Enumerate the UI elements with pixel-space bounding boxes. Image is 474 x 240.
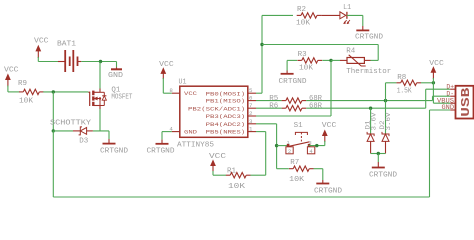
svg-text:3: 3: [249, 118, 253, 125]
svg-text:1: 1: [287, 140, 290, 146]
svg-text:68R: 68R: [309, 102, 323, 110]
svg-text:VCC: VCC: [184, 90, 198, 97]
svg-text:CRTGND: CRTGND: [314, 188, 342, 196]
svg-text:VCC: VCC: [34, 38, 49, 46]
svg-text:L1: L1: [343, 4, 351, 12]
svg-text:VCC: VCC: [4, 67, 19, 75]
svg-text:10K: 10K: [296, 19, 311, 27]
svg-text:CRTGND: CRTGND: [369, 172, 397, 180]
svg-text:PB3(ADC3): PB3(ADC3): [206, 113, 246, 120]
svg-text:CRTGND: CRTGND: [355, 33, 383, 41]
svg-text:CRTGND: CRTGND: [100, 147, 128, 155]
svg-text:D3: D3: [79, 138, 88, 146]
svg-text:R2: R2: [297, 6, 306, 14]
svg-text:7: 7: [249, 102, 253, 109]
svg-text:3.6V: 3.6V: [385, 112, 392, 130]
svg-text:CRTGND: CRTGND: [147, 147, 175, 155]
svg-text:PB0(MOSI): PB0(MOSI): [206, 90, 246, 97]
svg-text:PB4(ADC2): PB4(ADC2): [206, 121, 246, 128]
svg-text:VCC: VCC: [322, 122, 337, 130]
svg-text:1: 1: [249, 126, 253, 133]
svg-text:PB1(MISO): PB1(MISO): [206, 98, 246, 105]
svg-text:GND: GND: [184, 129, 198, 136]
svg-text:R6: R6: [269, 102, 278, 110]
svg-text:GND: GND: [108, 72, 123, 80]
svg-text:MOSFET: MOSFET: [111, 93, 133, 101]
svg-text:CRTGND: CRTGND: [279, 78, 307, 86]
svg-text:S1: S1: [294, 122, 303, 130]
svg-text:PB2(SCK/ADC1): PB2(SCK/ADC1): [188, 105, 245, 112]
svg-text:USB: USB: [459, 88, 473, 117]
svg-text:1.5K: 1.5K: [397, 88, 413, 96]
svg-text:5: 5: [249, 87, 253, 94]
svg-text:U1: U1: [179, 79, 187, 87]
svg-text:VCC: VCC: [429, 60, 444, 68]
svg-text:10K: 10K: [289, 176, 305, 184]
svg-text:3.6V: 3.6V: [371, 112, 378, 130]
svg-text:R4: R4: [346, 48, 355, 56]
svg-text:VCC: VCC: [159, 61, 174, 69]
svg-text:SCHOTTKY: SCHOTTKY: [50, 120, 92, 128]
svg-text:10K: 10K: [228, 183, 246, 191]
svg-text:2: 2: [249, 110, 253, 117]
svg-text:VCC: VCC: [209, 153, 227, 161]
svg-text:6: 6: [249, 95, 253, 102]
svg-text:PB5(NRES): PB5(NRES): [206, 129, 246, 136]
svg-text:10K: 10K: [299, 64, 314, 72]
svg-text:D+: D+: [446, 83, 454, 90]
svg-text:10K: 10K: [19, 98, 34, 106]
svg-text:ATTINY85: ATTINY85: [177, 141, 214, 149]
svg-text:Thermistor: Thermistor: [346, 68, 391, 76]
svg-text:BAT1: BAT1: [57, 40, 76, 48]
svg-text:2: 2: [288, 148, 291, 155]
svg-text:R9: R9: [18, 80, 27, 88]
svg-text:R3: R3: [298, 51, 307, 59]
